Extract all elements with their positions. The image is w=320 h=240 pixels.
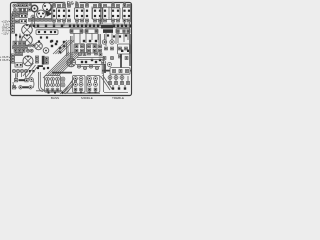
horizontal resistor row <box>36 29 130 35</box>
transistor pads circle C <box>37 10 46 19</box>
board outline <box>11 3 132 96</box>
extra rows x14-28 y14-23 <box>16 14 28 23</box>
output labels <box>0 55 9 62</box>
vertical pair x52 <box>51 5 52 21</box>
right stub pads <box>107 34 127 37</box>
bottom pads row above edge <box>48 92 97 94</box>
trimmer pot <box>67 58 76 67</box>
pad row below circles <box>29 18 52 21</box>
input labels <box>1 19 9 35</box>
leader dashes <box>9 22 11 61</box>
svg-text:R OUT: R OUT <box>0 58 9 62</box>
center-right horizontal traces y64 <box>76 65 102 67</box>
column-to-bus vertical stubs <box>54 22 125 26</box>
bottom-right component block <box>102 68 131 75</box>
caption BASS <box>51 96 59 100</box>
diagonal trace bus <box>43 40 82 94</box>
right vertical traces <box>105 34 117 44</box>
right circles <box>102 40 114 44</box>
jumper link 2 <box>12 86 32 89</box>
small rect with pads <box>15 63 23 67</box>
left-mid pad rows <box>13 41 36 55</box>
dumbbell top stubs bottom-left <box>18 73 26 78</box>
top-left pad rows <box>13 4 32 15</box>
svg-text:BASS: BASS <box>51 96 59 100</box>
mid circle D <box>35 42 43 50</box>
caption TREBLE <box>112 96 124 100</box>
pad grid pads <box>75 40 101 52</box>
bottom left J trace <box>39 72 45 92</box>
extra mid verticals left <box>16 12 35 41</box>
svg-text:MIDDLE: MIDDLE <box>81 96 93 100</box>
right edge vertical trace <box>129 22 130 67</box>
bottom diagonals right <box>101 74 113 92</box>
bottom dumbbell columns <box>46 77 98 92</box>
vertical component pads <box>53 2 131 22</box>
bottom group outline 1 <box>45 76 61 93</box>
dark bus segment <box>101 25 113 28</box>
caption MIDDLE <box>81 96 93 100</box>
figure title FIG 3 <box>65 0 80 5</box>
svg-text:−12V: −12V <box>1 31 9 35</box>
pad grid outlines <box>74 44 97 53</box>
vertical trace pair center <box>70 36 72 58</box>
bottom group outline 2 <box>73 75 86 92</box>
bottom-right vertical stubs <box>110 75 128 89</box>
right small circles <box>102 61 112 67</box>
dark horizontal trace low-center <box>52 72 72 74</box>
bottom rail trace <box>36 91 128 93</box>
diagonal traces left-low <box>23 63 37 80</box>
vertical trace pair right-mid <box>99 34 101 44</box>
bottom diagonals center <box>64 78 77 93</box>
vertical pair x66 <box>67 42 69 56</box>
vertical stubs center <box>74 34 98 44</box>
scattered pads mid <box>51 40 65 53</box>
bus junction pads <box>29 25 131 27</box>
mid circle E <box>43 48 49 54</box>
vertical pair x101 <box>101 5 103 25</box>
dark vertical trace center <box>42 56 45 65</box>
jumper link 1 <box>14 79 28 82</box>
horizontal bus traces <box>30 24 131 28</box>
top extra verticals x96-104 <box>92 7 109 20</box>
mid-right traces <box>77 58 103 60</box>
dark wedge trace <box>45 10 53 16</box>
right pad row <box>105 44 130 54</box>
transistor pads circle B <box>43 3 52 12</box>
electrolytic cap C1 <box>22 25 33 36</box>
vertical stubs right <box>106 33 128 46</box>
pad row y71 <box>12 69 34 72</box>
electrolytic cap C2 <box>22 35 33 46</box>
output terminal pads <box>11 54 14 63</box>
curved trace bottom-left <box>13 80 34 88</box>
pads around dark trace <box>36 56 49 67</box>
bottom right pads <box>108 76 129 90</box>
stub end pads left <box>38 36 58 42</box>
right dark vertical bar <box>120 54 122 70</box>
vertical trace x103.5 <box>102 56 103 74</box>
right mid pads <box>103 55 128 59</box>
electrolytic cap C3 <box>23 56 33 66</box>
transistor pads circle A <box>31 5 37 11</box>
pads left of C2 <box>15 34 21 38</box>
circle pad x33 <box>31 15 35 19</box>
svg-text:TREBLE: TREBLE <box>112 96 124 100</box>
vertical trace pair left <box>15 73 17 81</box>
input terminal pads <box>11 14 14 33</box>
vertical component group outlines <box>57 7 131 19</box>
bottom group outline 3 <box>87 75 100 92</box>
right dark vertical bar2 <box>104 64 106 73</box>
pads below dark bar <box>37 67 49 70</box>
mid-right pads <box>79 52 102 63</box>
circle pad right of jumper <box>30 78 34 82</box>
mid-right pad circles <box>77 65 98 70</box>
